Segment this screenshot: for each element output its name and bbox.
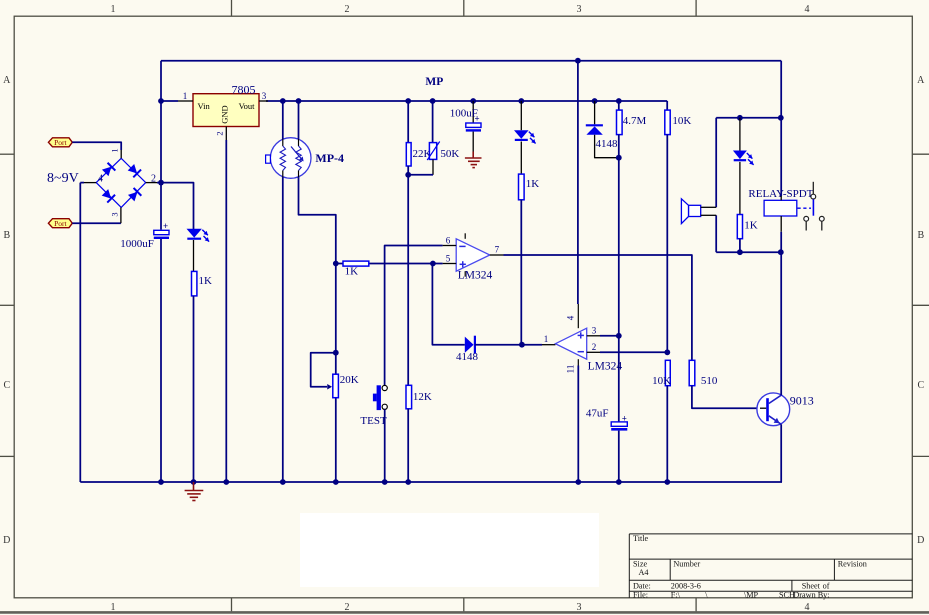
svg-text:1: 1 bbox=[544, 334, 549, 344]
wire 4148 anode to 4.7M junction bbox=[595, 135, 619, 158]
svg-text:7: 7 bbox=[495, 245, 500, 255]
capacitor 1000uF bbox=[154, 230, 169, 234]
wire pin6 net to TEST bbox=[385, 246, 443, 386]
svg-text:1: 1 bbox=[111, 4, 116, 15]
svg-text:1: 1 bbox=[109, 148, 119, 152]
20K wiper loop wire bbox=[311, 353, 336, 387]
LED D6 bbox=[514, 130, 529, 139]
wire 20K to rail bbox=[335, 398, 337, 482]
junction bridge output node bbox=[158, 180, 164, 186]
transistor Q1 9013 bbox=[757, 393, 790, 426]
7805 pin 2 GND bbox=[225, 127, 227, 141]
wire 10K down to pin2 node bbox=[666, 135, 668, 353]
wire pin2 net bbox=[600, 351, 667, 353]
resistor 510 bbox=[689, 360, 695, 385]
svg-text:5: 5 bbox=[446, 254, 451, 264]
op-amp U1A LM324 (left) bbox=[456, 239, 490, 271]
svg-text:\MP: \MP bbox=[744, 590, 759, 599]
MP-4 heater element bbox=[280, 146, 285, 171]
wire op1 output to 510 column bbox=[504, 255, 692, 360]
wire left loop vertical bbox=[160, 61, 162, 230]
svg-text:Port: Port bbox=[54, 219, 67, 228]
wire 12K to rail bbox=[407, 409, 409, 482]
svg-text:Number: Number bbox=[673, 560, 700, 569]
svg-text:4: 4 bbox=[98, 173, 103, 184]
MP-4 sensing arrow bbox=[291, 147, 302, 161]
op-amp2 pin 2 (-) bbox=[587, 351, 600, 353]
diode 4148 (feedback) bbox=[432, 264, 464, 345]
svg-text:B: B bbox=[917, 230, 924, 241]
svg-text:4: 4 bbox=[805, 602, 810, 613]
wire MP-4 sense column upper bbox=[298, 101, 300, 139]
svg-text:Sheet: Sheet bbox=[802, 582, 821, 591]
svg-text:B: B bbox=[3, 230, 10, 241]
svg-text:of: of bbox=[823, 582, 830, 591]
svg-text:C: C bbox=[3, 380, 10, 391]
svg-text:Date:: Date: bbox=[633, 582, 651, 591]
svg-text:3: 3 bbox=[577, 4, 582, 15]
wire MP-4 sense output jog bbox=[299, 177, 336, 374]
svg-text:3: 3 bbox=[592, 325, 597, 335]
7805 pin 3 bbox=[259, 100, 268, 102]
svg-text:A: A bbox=[917, 75, 925, 86]
svg-text:Drawn By:: Drawn By: bbox=[793, 590, 829, 599]
svg-text:D: D bbox=[3, 535, 10, 546]
wire port P1 to bridge bbox=[72, 142, 121, 150]
svg-text:12K: 12K bbox=[413, 391, 432, 403]
svg-text:4: 4 bbox=[805, 4, 810, 15]
title block bbox=[629, 534, 912, 598]
svg-text:MP-4: MP-4 bbox=[315, 151, 344, 165]
relay common contact bbox=[811, 194, 816, 199]
svg-text:Vin: Vin bbox=[198, 101, 211, 111]
wire top 8V rail bbox=[161, 60, 781, 62]
svg-text:2: 2 bbox=[345, 4, 350, 15]
svg-text:1: 1 bbox=[183, 91, 188, 101]
wire TEST to rail bbox=[384, 409, 386, 482]
wire left column from bridge pin4 bbox=[80, 182, 84, 184]
pushbutton TEST bbox=[382, 385, 387, 390]
op-amp1 pin 5 (+) bbox=[443, 263, 457, 265]
svg-text:+: + bbox=[163, 221, 168, 231]
resistor 10K (hysteresis top) bbox=[666, 101, 668, 110]
wire 9013 collector up bbox=[780, 232, 782, 396]
resistor 10K (pin2 pulldown) bbox=[665, 360, 670, 385]
svg-text:4148: 4148 bbox=[596, 138, 619, 150]
svg-text:D: D bbox=[917, 535, 924, 546]
wire 1K to bottom bbox=[739, 239, 741, 253]
resistor 1K (LED D6) bbox=[519, 174, 525, 200]
svg-text:9013: 9013 bbox=[790, 394, 814, 408]
bridge rectifier D1-D4 bbox=[96, 158, 146, 207]
svg-text:1: 1 bbox=[111, 602, 116, 613]
wire bottom ground rail bbox=[80, 481, 782, 483]
relay throw contacts bbox=[804, 216, 809, 221]
svg-text:1K: 1K bbox=[199, 275, 213, 287]
svg-text:1K: 1K bbox=[744, 220, 758, 232]
svg-text:8~9V: 8~9V bbox=[47, 171, 79, 186]
svg-text:10K: 10K bbox=[672, 115, 691, 127]
wire bridge pin2 to LED column bbox=[157, 183, 194, 229]
wire 7805 GND to rail bbox=[225, 140, 227, 482]
svg-text:100uF: 100uF bbox=[450, 108, 478, 120]
svg-text:TEST: TEST bbox=[360, 415, 387, 427]
svg-text:GND: GND bbox=[220, 105, 230, 123]
wire 510 to 9013 base bbox=[692, 386, 760, 409]
capacitor 100uF bbox=[472, 101, 474, 123]
wire divider to 12K column bbox=[407, 175, 409, 385]
svg-text:47uF: 47uF bbox=[586, 407, 609, 419]
capacitor 47uF bbox=[611, 422, 627, 426]
MP-4 sensing element bbox=[296, 146, 301, 171]
svg-text:Revision: Revision bbox=[838, 560, 867, 569]
diode bridge top-right bbox=[128, 164, 137, 173]
svg-text:50K: 50K bbox=[440, 148, 459, 160]
svg-text:MP: MP bbox=[425, 76, 443, 88]
svg-text:Title: Title bbox=[633, 534, 649, 543]
svg-text:10K: 10K bbox=[652, 375, 671, 387]
MP-4 pin stubs lower bbox=[282, 171, 284, 178]
op-amp1 pin 6 (-) bbox=[443, 245, 457, 247]
wire 4.7M down to comparator + input bbox=[618, 135, 620, 422]
svg-text:Vout: Vout bbox=[239, 101, 256, 111]
7805 pin 1 bbox=[178, 100, 193, 102]
svg-text:6: 6 bbox=[446, 236, 451, 246]
wire 10K to rail bbox=[666, 386, 668, 482]
regulator U? 7805 bbox=[193, 94, 259, 127]
diode bridge bottom-right bbox=[128, 192, 137, 201]
svg-text:File:: File: bbox=[633, 590, 648, 599]
svg-text:11: 11 bbox=[565, 365, 575, 374]
wire port P2 to bridge bbox=[72, 222, 121, 224]
resistor 1K (sensor divider) bbox=[343, 261, 369, 266]
LED D6 column wire bbox=[520, 101, 522, 130]
svg-text:+: + bbox=[622, 413, 627, 423]
svg-text:4.7M: 4.7M bbox=[623, 115, 647, 127]
speaker LS1 bbox=[689, 205, 701, 216]
wire 9013 emitter to rail bbox=[780, 424, 782, 482]
wire MP-4 heater to ground rail bbox=[282, 177, 284, 482]
svg-text:2: 2 bbox=[215, 131, 225, 135]
wire 22K/50K junction bbox=[408, 174, 433, 176]
wire 4148 to op2 output pin1 bbox=[475, 344, 542, 346]
relay blade bbox=[812, 199, 814, 215]
wire pin3 net bbox=[600, 335, 619, 337]
svg-text:A4: A4 bbox=[639, 568, 649, 577]
svg-text:510: 510 bbox=[701, 375, 718, 387]
svg-text:4148: 4148 bbox=[456, 351, 479, 363]
port P2 bbox=[48, 219, 72, 228]
white patch rectangle bbox=[300, 513, 599, 587]
LED D7 (alarm) bbox=[739, 118, 741, 151]
wire MP-4 heater column upper bbox=[282, 101, 284, 139]
svg-text:7805: 7805 bbox=[232, 82, 256, 96]
resistor 4.7M bbox=[618, 101, 620, 110]
diode bridge top-left bbox=[102, 167, 111, 176]
svg-text:20K: 20K bbox=[340, 374, 359, 386]
svg-text:3: 3 bbox=[577, 602, 582, 613]
svg-text:2: 2 bbox=[592, 342, 597, 352]
svg-text:C: C bbox=[917, 380, 924, 391]
resistor 1K (power LED) bbox=[192, 271, 197, 296]
wire 47uF to rail bbox=[618, 431, 620, 482]
junction bottom rail dots bbox=[158, 479, 164, 485]
svg-text:2008-3-6: 2008-3-6 bbox=[671, 582, 701, 591]
svg-text:1K: 1K bbox=[345, 266, 359, 278]
wire 1K to ground rail bbox=[193, 296, 195, 482]
svg-text:F:\: F:\ bbox=[671, 590, 681, 599]
svg-text:4: 4 bbox=[566, 315, 576, 320]
svg-text:1000uF: 1000uF bbox=[120, 238, 154, 250]
potentiometer 50K bbox=[432, 101, 434, 143]
diode bridge bottom-left bbox=[102, 189, 111, 198]
wire LED to 1K bbox=[193, 240, 195, 271]
svg-text:LM324: LM324 bbox=[458, 270, 493, 282]
resistor 12K bbox=[406, 385, 412, 409]
svg-text:1K: 1K bbox=[526, 178, 540, 190]
sensor MP-4 bbox=[270, 138, 311, 179]
diode 4148 (to Vcc) bbox=[594, 101, 596, 124]
relay dashed link bbox=[798, 207, 812, 209]
op-amp2 pin 3 (+) bbox=[587, 335, 600, 337]
ground symbol (main rail) bbox=[185, 482, 204, 501]
resistor 1K (alarm LED) bbox=[737, 215, 742, 239]
wire Vin feed segment bbox=[161, 100, 178, 102]
svg-text:2: 2 bbox=[345, 602, 350, 613]
port P1 bbox=[48, 138, 72, 147]
wire right loop vertical top bbox=[780, 61, 782, 196]
wire 100uF to ground symbol bbox=[472, 132, 474, 152]
op-amp2 pin 4 V+ bbox=[577, 61, 579, 304]
wire relay subcircuit bottom bbox=[716, 251, 781, 253]
potentiometer 20K bbox=[333, 350, 339, 356]
svg-text:3: 3 bbox=[262, 91, 267, 101]
wire relay subcircuit top bbox=[716, 117, 781, 119]
op-amp2 pin 11 V- bbox=[577, 366, 579, 483]
op-amp2 pin 1 out bbox=[542, 344, 555, 346]
wire pin5 net bbox=[336, 263, 343, 265]
junction Vcc rail dots bbox=[158, 98, 164, 104]
LED D5 power indicator bbox=[187, 229, 202, 238]
svg-text:2: 2 bbox=[151, 173, 156, 184]
wire 5V Vcc rail bbox=[266, 100, 667, 102]
ground symbol (power gnd) bbox=[465, 152, 482, 168]
resistor 22K bbox=[407, 101, 409, 143]
wire 1K to op-amp2 output bbox=[520, 200, 522, 345]
svg-text:Port: Port bbox=[54, 138, 67, 147]
svg-text:LM324: LM324 bbox=[588, 360, 623, 372]
op-amp U1B LM324 (comparator, points left) bbox=[555, 328, 586, 359]
wire speaker branch bbox=[715, 118, 717, 208]
svg-text:A: A bbox=[3, 75, 11, 86]
op-amp1 pin 7 out bbox=[490, 254, 504, 256]
svg-text:3: 3 bbox=[109, 212, 119, 216]
